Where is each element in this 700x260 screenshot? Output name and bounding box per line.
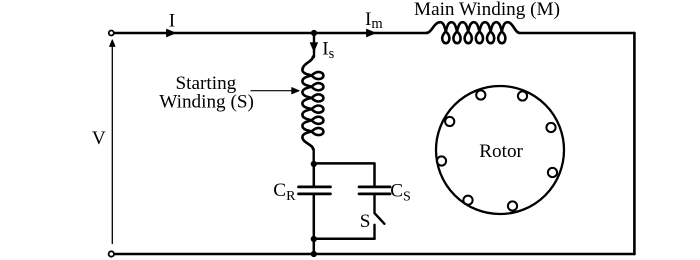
wire right edge (633, 33, 636, 254)
wire connector top of capacitor branches (314, 163, 375, 185)
rotor bar 7 (437, 156, 446, 165)
rotor circle (436, 86, 564, 214)
wire bottom rail (114, 253, 634, 256)
current arrow Is (310, 43, 317, 51)
svg-text:S: S (360, 211, 371, 232)
svg-text:Is: Is (322, 39, 334, 62)
node junction top (starting branch) (311, 30, 317, 36)
wire CR bottom plate to node (313, 195, 316, 239)
rotor bar 4 (548, 168, 557, 177)
switch S blade (375, 213, 385, 223)
label pointer arrow (starting winding) (251, 88, 299, 94)
wire switch lower contact (373, 225, 375, 239)
rotor bar 1 (476, 90, 485, 99)
wire CS bottom plate to switch (373, 195, 375, 213)
terminal top-left (109, 31, 114, 36)
inductor starting winding S (302, 57, 323, 150)
svg-text:Rotor: Rotor (479, 141, 523, 162)
wire top rail left (114, 32, 427, 35)
wire node to CR top plate (313, 164, 316, 185)
capacitor CR (299, 187, 331, 194)
current arrow I (167, 29, 176, 36)
rotor bar 2 (518, 91, 527, 100)
svg-text:Main Winding (M): Main Winding (M) (414, 0, 560, 20)
voltage arrow V (110, 40, 115, 244)
wire connector bottom of capacitor branches (314, 238, 375, 241)
svg-text:I: I (169, 11, 175, 32)
svg-text:CR: CR (273, 180, 296, 204)
capacitor CS (359, 187, 390, 194)
node junction capacitors top (311, 161, 317, 167)
wire node to bottom rail (313, 239, 316, 254)
wire top rail right (519, 32, 634, 35)
wire starting winding to node (313, 149, 315, 164)
rotor bar 5 (508, 201, 517, 210)
rotor bar 3 (546, 123, 555, 132)
inductor main winding M (427, 22, 520, 43)
svg-text:Winding (S): Winding (S) (159, 91, 254, 112)
svg-text:V: V (92, 128, 106, 149)
rotor bar 8 (445, 117, 454, 126)
svg-text:CS: CS (390, 180, 411, 204)
wire starting branch top (313, 33, 315, 57)
node junction capacitors bottom (311, 236, 317, 242)
rotor bar 6 (463, 196, 472, 205)
terminal bottom-left (109, 251, 114, 256)
svg-text:Im: Im (365, 9, 383, 32)
current arrow Im (367, 29, 376, 36)
node junction bottom rail (311, 251, 317, 257)
